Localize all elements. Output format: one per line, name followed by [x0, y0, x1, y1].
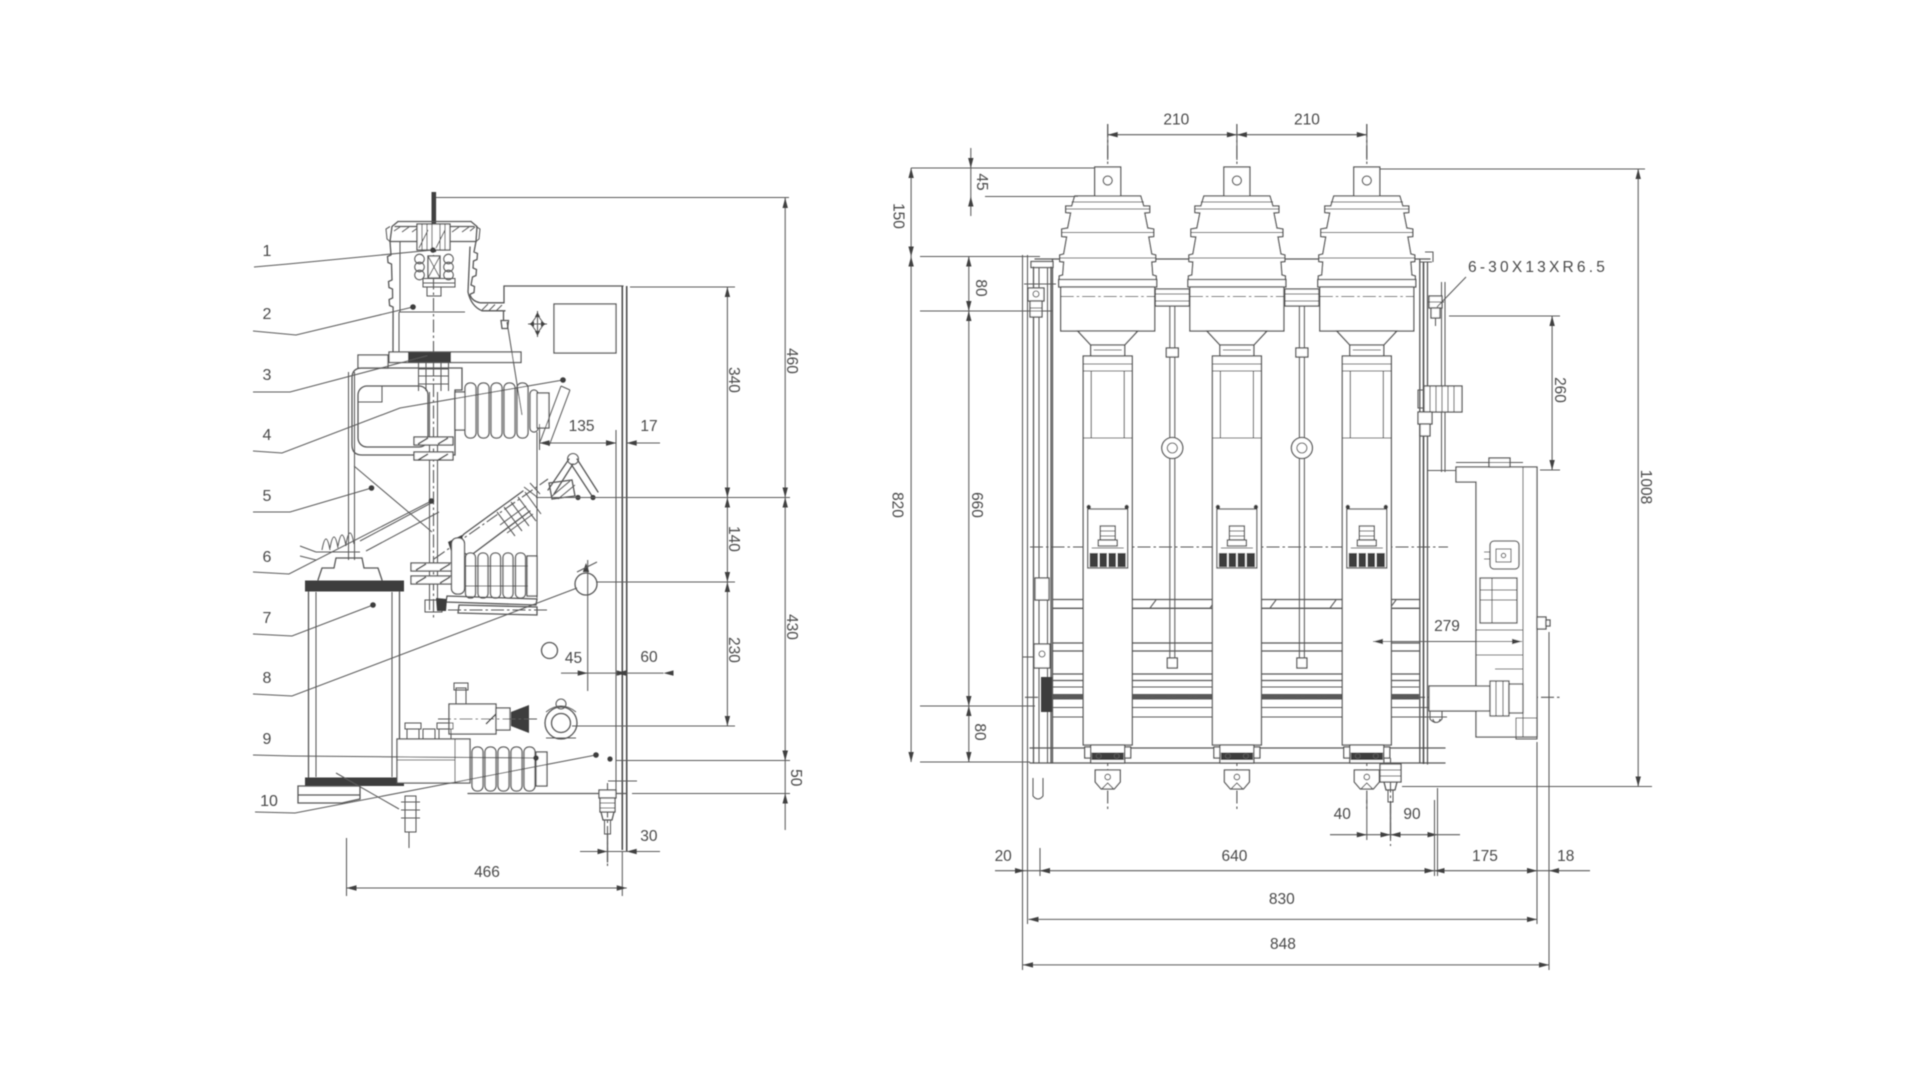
callout 9: [253, 731, 613, 762]
left mounting angle: [1023, 255, 1028, 850]
phase 2 bottom bracket: [1224, 770, 1249, 789]
svg-text:640: 640: [1221, 848, 1247, 865]
callout 6: [253, 498, 434, 574]
dimension 45 tab height: [968, 148, 990, 216]
dimension 60: [617, 649, 674, 676]
small junction box left of plate: [358, 355, 388, 368]
phase 2 contact spring box: [1217, 509, 1257, 568]
dimension 140: [725, 498, 743, 583]
main shaft axis: [1025, 696, 1560, 698]
housing bottom bracket: [1430, 669, 1537, 739]
dimension 135: [540, 418, 617, 446]
note 6-30X13XR6.5: [1437, 259, 1608, 307]
pole unit phase 3: [1318, 124, 1416, 812]
bushing mounting plate with gasket: [389, 352, 521, 363]
svg-text:210: 210: [1294, 112, 1320, 129]
wire top extension line to 460 dim: [436, 197, 789, 199]
tank bottom edge: [468, 793, 627, 795]
left channel post: [1031, 262, 1053, 764]
current transformer cap: [318, 558, 382, 580]
dimension 50: [783, 751, 804, 831]
svg-text:848: 848: [1270, 936, 1296, 953]
svg-text:10: 10: [260, 793, 278, 810]
housing indicator panel: [1484, 541, 1519, 569]
plate spring stack: [1418, 386, 1462, 412]
svg-text:6: 6: [263, 549, 272, 566]
660 bottom extension: [920, 705, 1035, 707]
dimension 210 right: [1237, 112, 1367, 161]
upper epoxy bushing outline: [386, 222, 509, 353]
left channel bolt cluster: [1024, 284, 1056, 317]
callout 7: [253, 602, 376, 636]
bottom dim extension verticals: [1023, 632, 1550, 970]
frame right edge: [1419, 259, 1421, 763]
bell crank lever: [548, 454, 598, 500]
phase 3 contact spring box: [1347, 509, 1387, 568]
dimension 830: [1029, 891, 1538, 922]
dimension 1008: [1402, 169, 1654, 787]
callout 4: [253, 377, 566, 453]
svg-text:6-30X13XR6.5: 6-30X13XR6.5: [1468, 259, 1608, 276]
phase 2 lower terminal block: [1214, 747, 1260, 758]
phase 3 head plate: [1318, 280, 1416, 288]
mechanism housing box: [352, 368, 462, 455]
drain stub on wall: [608, 780, 637, 782]
insulator neck below plate: [419, 363, 449, 391]
phase 1 interrupter column: [1083, 356, 1132, 745]
svg-text:460: 460: [783, 348, 800, 374]
svg-text:135: 135: [569, 418, 595, 435]
top extension line right: [1380, 168, 1645, 170]
current transformer dark top band: [305, 581, 404, 592]
svg-text:260: 260: [1551, 377, 1568, 403]
extension lines: [347, 287, 791, 896]
phase 2 bushing cone: [1188, 196, 1285, 283]
80 extension: [920, 310, 1052, 312]
svg-text:80: 80: [972, 279, 989, 297]
svg-text:80: 80: [971, 723, 988, 741]
svg-text:17: 17: [640, 418, 657, 435]
svg-text:340: 340: [725, 367, 742, 393]
svg-text:150: 150: [889, 203, 906, 229]
upper guide rail pair: [1053, 600, 1419, 609]
frame top rail: [1035, 258, 1430, 260]
phase 2 pole box: [1190, 287, 1284, 331]
dimension 460: [783, 198, 800, 498]
svg-text:660: 660: [968, 492, 985, 518]
lower vertical bolt: [336, 773, 420, 848]
base channel lines: [1030, 748, 1445, 763]
callout 5: [253, 485, 374, 512]
output shaft: [1429, 681, 1523, 716]
dimension 430: [783, 498, 800, 761]
svg-text:230: 230: [725, 637, 742, 663]
svg-text:2: 2: [263, 306, 272, 323]
dimension 90: [1381, 806, 1438, 837]
lower mechanism box: [397, 723, 470, 783]
callout 8: [253, 588, 577, 696]
housing inner box: [1480, 578, 1517, 623]
upper horizontal post insulator (5 sheds): [455, 383, 549, 438]
inter-pole link 1: [1155, 289, 1189, 668]
phase 2 finger contact dark band: [1219, 553, 1255, 567]
dimension 230: [725, 582, 743, 726]
dimension 30: [580, 828, 660, 854]
dimension 820: [888, 257, 913, 763]
phase 1 bottom bracket: [1095, 770, 1120, 789]
dimension 340: [725, 287, 743, 498]
phase 1 lower cone: [1078, 331, 1138, 345]
phase 2 head plate: [1188, 280, 1286, 288]
svg-text:40: 40: [1334, 806, 1352, 823]
svg-text:820: 820: [888, 492, 905, 518]
right mounting plate: [1420, 252, 1445, 764]
nameplate square: [554, 304, 616, 353]
dimension 18: [1527, 848, 1590, 873]
operating hole with arrow: [575, 560, 597, 691]
insulated pull rod with fittings: [411, 392, 456, 612]
svg-text:18: 18: [1557, 848, 1574, 865]
bushing top clamp bolts: [415, 224, 455, 296]
callout 3: [253, 352, 433, 392]
base extension: [920, 761, 1030, 763]
phase 2 terminal tab: [1224, 167, 1250, 197]
dimension 210 left: [1108, 112, 1237, 161]
dimension 175: [1435, 848, 1538, 873]
upper bushing center axis: [433, 255, 435, 618]
phase 3 axis: [1366, 124, 1368, 812]
dimension 80 upper: [966, 257, 989, 312]
phase 2 axis: [1236, 124, 1238, 812]
frame left edge: [1052, 259, 1054, 763]
phase 2 interrupter column: [1212, 356, 1261, 745]
tank right wall (double): [622, 286, 626, 851]
dimension 40: [1330, 788, 1460, 876]
svg-text:4: 4: [263, 427, 272, 444]
operating cylinder assembly: [438, 683, 540, 734]
interlock keyhole: [545, 699, 577, 739]
svg-text:430: 430: [783, 614, 800, 640]
plate lower bolt: [1418, 412, 1432, 436]
svg-text:279: 279: [1434, 618, 1460, 635]
tank inner wall: [615, 430, 617, 794]
upper bushing terminal stem: [431, 192, 436, 252]
phase 1 axis: [1107, 124, 1109, 812]
inter-pole link 2: [1285, 289, 1319, 668]
top extension line left: [911, 167, 1094, 169]
svg-text:45: 45: [973, 173, 990, 190]
svg-text:1008: 1008: [1637, 470, 1654, 504]
phase 1 pole box: [1061, 287, 1155, 331]
phase 3 pole box: [1320, 287, 1414, 331]
crank shelf line: [536, 495, 616, 500]
lower guide rail pair: [1053, 674, 1419, 687]
phase 1 contact spring box: [1088, 509, 1128, 568]
current transformer dark bottom band: [305, 778, 404, 787]
left channel dark block: [1041, 677, 1052, 712]
housing right bolt: [1537, 617, 1550, 629]
middle horizontal post insulator: [452, 538, 538, 598]
svg-text:9: 9: [263, 731, 272, 748]
tab bottom extension: [985, 196, 1078, 198]
main drive shaft dark band: [1053, 694, 1419, 700]
flange extension: [920, 256, 1040, 258]
middle guide rail pair: [1053, 643, 1419, 651]
dimension 80 lower: [966, 706, 988, 762]
dimension 17: [606, 418, 660, 446]
callout 2: [253, 304, 416, 335]
pole unit phase 2: [1188, 124, 1286, 812]
svg-text:1: 1: [263, 243, 272, 260]
phase 1 head plate: [1059, 280, 1157, 288]
left channel middle fittings: [1022, 578, 1050, 668]
tank interior partition: [507, 322, 537, 598]
dimension 45 hole offset: [561, 650, 664, 676]
dimension 150: [889, 168, 913, 257]
lifting mark symbol: [528, 311, 547, 337]
svg-text:830: 830: [1269, 891, 1295, 908]
svg-text:50: 50: [787, 769, 804, 787]
phase 3 lower terminal block: [1344, 747, 1390, 758]
dimension 279 leader: [1373, 618, 1522, 644]
svg-text:90: 90: [1403, 806, 1421, 823]
small hole: [542, 643, 558, 659]
phase 2 lower cone: [1207, 331, 1267, 345]
diagonal vacuum interrupter: [434, 479, 548, 559]
phase 3 bottom bracket: [1354, 770, 1379, 789]
dimension 260: [1449, 316, 1568, 470]
svg-text:466: 466: [474, 864, 500, 881]
left frame channel: [349, 372, 440, 560]
phase 3 interrupter column: [1342, 356, 1391, 745]
dimension 640: [1040, 848, 1435, 873]
svg-text:7: 7: [263, 610, 272, 627]
svg-text:210: 210: [1163, 112, 1189, 129]
moving contact fingers: [300, 533, 360, 560]
right earthing bolt: [1380, 758, 1401, 846]
dimension 20: [995, 848, 1070, 873]
plate top bolt (6-30X13 target): [1427, 296, 1444, 326]
phase 1 lower terminal block: [1085, 747, 1131, 758]
left channel foot loop: [1033, 778, 1043, 799]
svg-text:175: 175: [1472, 848, 1498, 865]
dimension 466: [347, 864, 627, 891]
phase 3 terminal tab: [1354, 167, 1380, 197]
svg-text:30: 30: [640, 828, 658, 845]
svg-text:8: 8: [263, 670, 272, 687]
callout 10: [255, 752, 599, 813]
current transformer body: [309, 592, 400, 777]
phase 1 terminal tab: [1095, 167, 1121, 197]
insulator base bars: [436, 596, 548, 615]
svg-text:45: 45: [565, 650, 582, 667]
tank top edge: [504, 286, 623, 303]
mechanism housing: [1428, 458, 1537, 737]
callout 1: [254, 243, 436, 267]
lower shaft rail pair: [1053, 708, 1447, 718]
diagonal arm to label 4: [540, 386, 570, 446]
phase 3 finger contact dark band: [1349, 553, 1385, 567]
svg-text:20: 20: [995, 848, 1013, 865]
svg-text:3: 3: [263, 367, 272, 384]
pole unit phase 1: [1059, 124, 1157, 812]
earthing terminal bolt: [599, 783, 616, 868]
phase 1 bushing cone: [1059, 196, 1156, 283]
phase 1 finger contact dark band: [1090, 553, 1126, 567]
upper pole axis line: [1030, 546, 1448, 548]
svg-text:140: 140: [725, 526, 742, 552]
phase 3 bushing cone: [1318, 196, 1415, 283]
bottom foot bracket: [298, 786, 360, 803]
lower horizontal post insulator (5 sheds): [472, 747, 547, 791]
svg-text:60: 60: [640, 649, 658, 666]
svg-text:5: 5: [263, 488, 272, 505]
phase 3 lower cone: [1337, 331, 1397, 345]
dimension 848: [1023, 936, 1549, 968]
dimension 660: [966, 311, 985, 706]
